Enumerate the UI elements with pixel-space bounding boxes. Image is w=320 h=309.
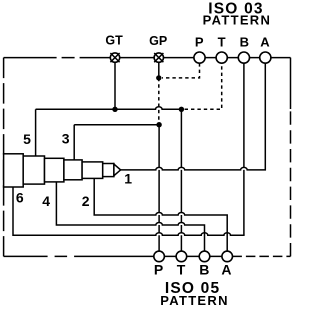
svg-text:P: P [154, 262, 163, 278]
svg-text:GP: GP [149, 34, 167, 48]
svg-text:4: 4 [42, 193, 50, 209]
svg-text:2: 2 [82, 193, 90, 209]
svg-text:B: B [199, 262, 209, 278]
svg-text:PATTERN: PATTERN [203, 13, 272, 28]
svg-text:A: A [260, 35, 270, 50]
svg-text:A: A [221, 262, 231, 278]
svg-text:6: 6 [16, 190, 24, 206]
svg-text:1: 1 [124, 170, 132, 186]
svg-text:PATTERN: PATTERN [160, 293, 229, 308]
svg-text:GT: GT [105, 34, 123, 48]
svg-text:B: B [240, 35, 249, 50]
svg-text:5: 5 [23, 131, 31, 147]
svg-text:T: T [218, 35, 226, 50]
svg-text:P: P [195, 35, 204, 50]
svg-text:3: 3 [62, 131, 70, 147]
svg-text:T: T [177, 262, 186, 278]
